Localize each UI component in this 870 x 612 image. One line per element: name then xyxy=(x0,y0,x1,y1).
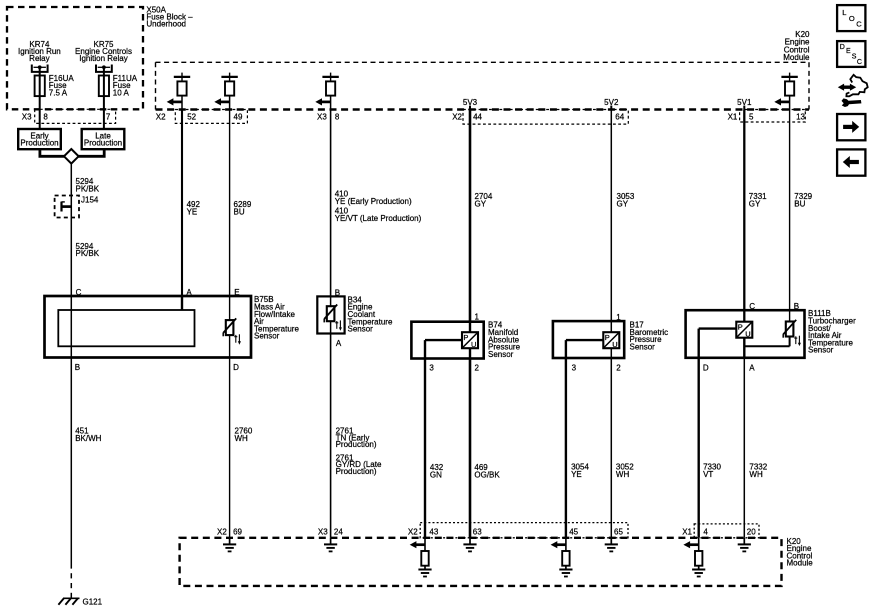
svg-text:OG/BK: OG/BK xyxy=(474,470,500,479)
svg-text:Module: Module xyxy=(787,559,814,568)
svg-text:44: 44 xyxy=(473,113,482,122)
svg-text:B: B xyxy=(794,302,799,311)
svg-text:A: A xyxy=(186,288,192,297)
svg-text:Ignition Relay: Ignition Relay xyxy=(79,54,127,63)
svg-text:7: 7 xyxy=(106,113,111,122)
svg-text:1: 1 xyxy=(616,313,621,322)
svg-text:X2: X2 xyxy=(452,113,462,122)
svg-text:P: P xyxy=(738,323,743,332)
svg-text:A: A xyxy=(336,339,342,348)
svg-text:X1: X1 xyxy=(728,113,738,122)
svg-text:Sensor: Sensor xyxy=(808,346,834,355)
svg-text:X3: X3 xyxy=(22,113,32,122)
svg-text:YE: YE xyxy=(187,207,198,216)
svg-text:B: B xyxy=(335,288,340,297)
svg-text:C: C xyxy=(857,59,862,66)
svg-text:Relay: Relay xyxy=(29,54,49,63)
svg-text:P: P xyxy=(463,333,468,342)
svg-text:X2: X2 xyxy=(408,527,418,536)
svg-text:PK/BK: PK/BK xyxy=(76,249,100,258)
svg-text:4: 4 xyxy=(703,527,708,536)
svg-text:YE (Early Production): YE (Early Production) xyxy=(335,197,412,206)
svg-text:D: D xyxy=(233,363,239,372)
svg-text:YE: YE xyxy=(571,470,582,479)
svg-text:E: E xyxy=(234,288,239,297)
svg-text:GY: GY xyxy=(475,199,487,208)
svg-text:13: 13 xyxy=(796,113,805,122)
svg-text:BU: BU xyxy=(234,207,245,216)
svg-text:J154: J154 xyxy=(81,196,99,205)
svg-text:45: 45 xyxy=(569,527,578,536)
svg-text:2: 2 xyxy=(616,363,621,372)
svg-text:U: U xyxy=(745,330,750,339)
svg-text:GY: GY xyxy=(749,199,761,208)
svg-text:GN: GN xyxy=(430,470,442,479)
svg-text:5V1: 5V1 xyxy=(737,98,752,107)
svg-text:A: A xyxy=(749,363,755,372)
svg-text:BK/WH: BK/WH xyxy=(75,434,101,443)
svg-text:B: B xyxy=(75,363,80,372)
svg-text:8: 8 xyxy=(43,113,48,122)
svg-text:Underhood: Underhood xyxy=(146,19,186,28)
svg-text:65: 65 xyxy=(614,527,623,536)
svg-text:X1: X1 xyxy=(682,527,692,536)
svg-text:3: 3 xyxy=(572,363,577,372)
svg-text:52: 52 xyxy=(187,113,196,122)
svg-text:BU: BU xyxy=(794,199,805,208)
svg-text:64: 64 xyxy=(615,113,624,122)
svg-text:PK/BK: PK/BK xyxy=(76,184,100,193)
svg-text:Production): Production) xyxy=(336,440,377,449)
svg-text:5: 5 xyxy=(749,113,754,122)
svg-text:1: 1 xyxy=(475,313,480,322)
svg-text:WH: WH xyxy=(749,470,763,479)
svg-text:63: 63 xyxy=(473,527,482,536)
svg-text:Sensor: Sensor xyxy=(630,342,656,351)
svg-text:Sensor: Sensor xyxy=(254,332,280,341)
svg-text:5V2: 5V2 xyxy=(604,98,619,107)
svg-text:X2: X2 xyxy=(217,527,227,536)
svg-text:U: U xyxy=(612,340,617,349)
svg-text:49: 49 xyxy=(234,113,243,122)
svg-text:43: 43 xyxy=(429,527,438,536)
svg-text:D: D xyxy=(840,44,845,51)
svg-text:G121: G121 xyxy=(83,598,103,607)
svg-text:WH: WH xyxy=(235,434,249,443)
svg-text:Production: Production xyxy=(84,139,122,148)
svg-text:C: C xyxy=(856,19,862,28)
svg-text:Module: Module xyxy=(783,53,810,62)
svg-text:X2: X2 xyxy=(156,113,166,122)
svg-text:C: C xyxy=(749,302,755,311)
svg-text:X3: X3 xyxy=(317,113,327,122)
svg-text:X3: X3 xyxy=(318,527,328,536)
svg-text:E: E xyxy=(846,48,851,55)
svg-text:GY: GY xyxy=(617,199,629,208)
svg-text:VT: VT xyxy=(703,470,713,479)
svg-text:7.5 A: 7.5 A xyxy=(49,88,68,97)
svg-text:O: O xyxy=(849,14,855,23)
svg-text:Sensor: Sensor xyxy=(348,325,374,334)
svg-text:69: 69 xyxy=(233,527,242,536)
svg-text:20: 20 xyxy=(747,527,756,536)
svg-text:10 A: 10 A xyxy=(113,88,130,97)
svg-text:24: 24 xyxy=(334,527,343,536)
svg-text:5V3: 5V3 xyxy=(463,98,478,107)
svg-text:Sensor: Sensor xyxy=(488,350,514,359)
svg-text:Production): Production) xyxy=(336,467,377,476)
svg-text:2: 2 xyxy=(475,363,480,372)
svg-text:YE/VT (Late Production): YE/VT (Late Production) xyxy=(335,214,422,223)
svg-text:Production: Production xyxy=(20,139,58,148)
svg-text:3: 3 xyxy=(429,363,434,372)
svg-text:L: L xyxy=(842,8,846,17)
svg-text:C: C xyxy=(76,288,82,297)
svg-text:P: P xyxy=(605,333,610,342)
svg-text:D: D xyxy=(703,363,709,372)
svg-text:U: U xyxy=(471,340,476,349)
svg-text:WH: WH xyxy=(616,470,630,479)
svg-text:8: 8 xyxy=(335,113,340,122)
